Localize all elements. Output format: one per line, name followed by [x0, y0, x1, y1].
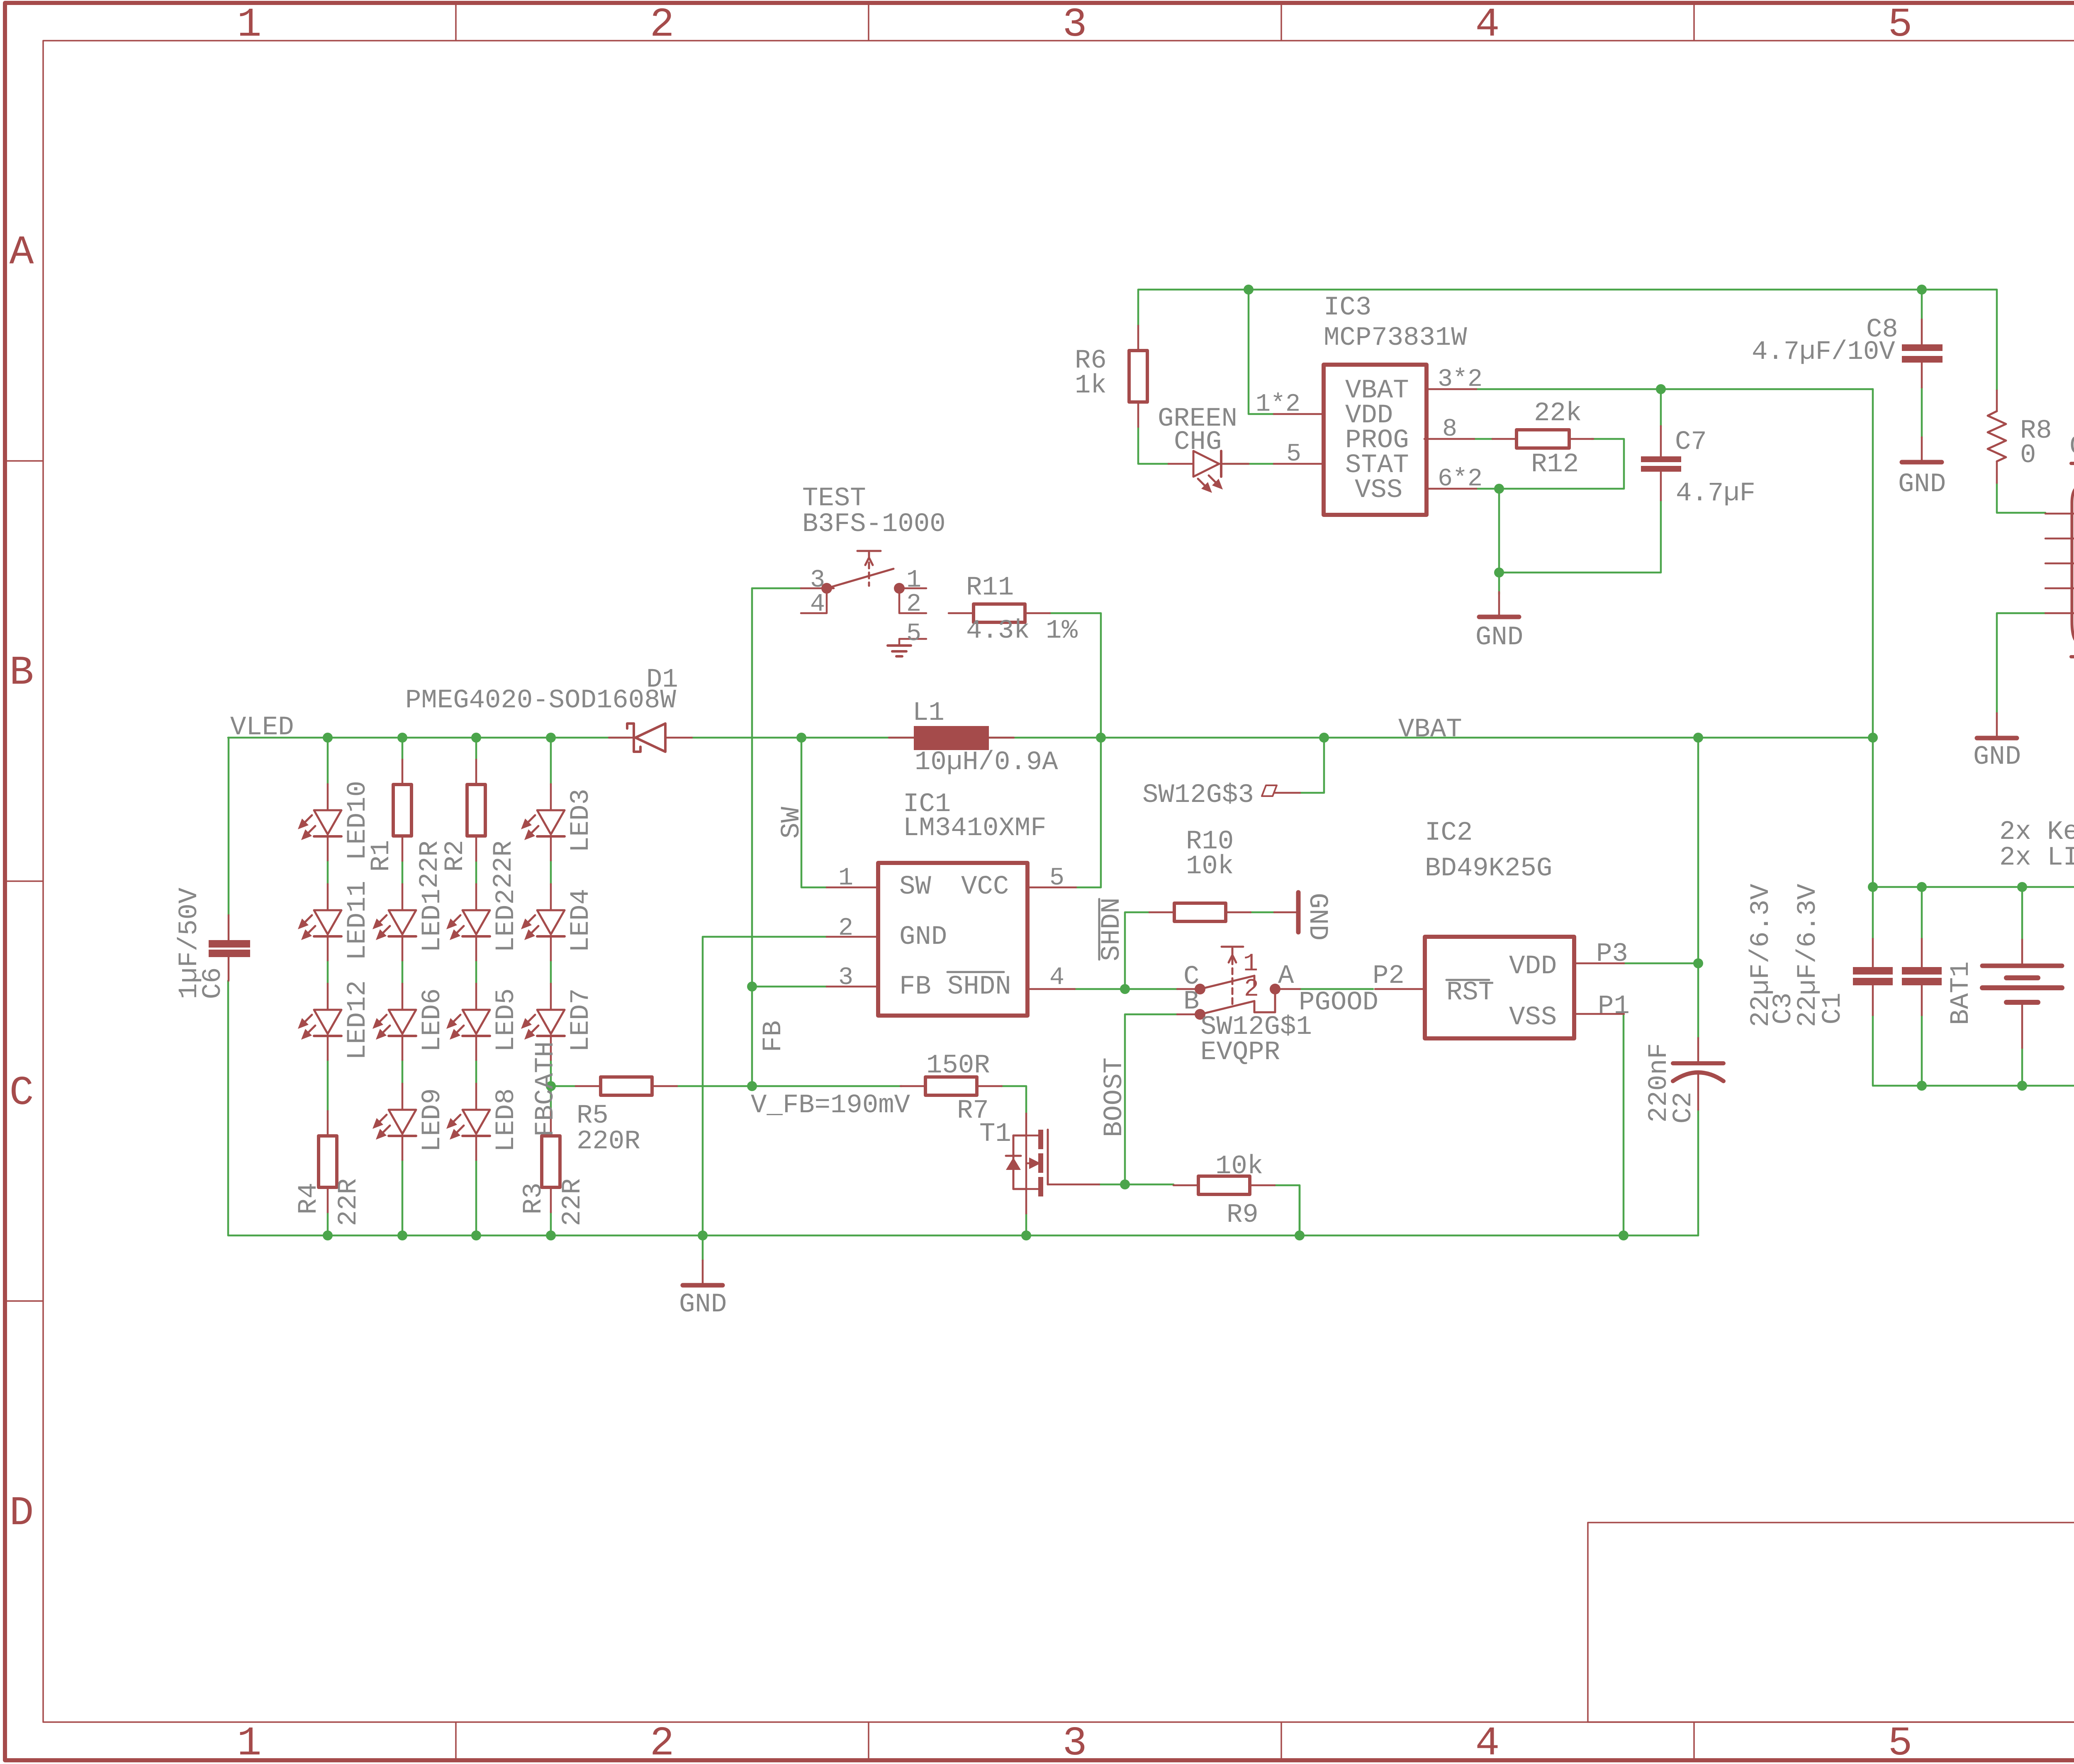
- LED LED1: [402, 884, 404, 910]
- frame row ticks left: [5, 460, 43, 462]
- frame column ticks top: [455, 5, 457, 41]
- capacitor C7: [1660, 426, 1662, 456]
- junction dots on VLED rail: [323, 733, 333, 743]
- svg-text:R1: R1: [367, 840, 397, 872]
- svg-text:4.3k 1%: 4.3k 1%: [966, 616, 1078, 646]
- IC1 pin 5 VCC: [1027, 887, 1076, 889]
- svg-text:A: A: [10, 230, 34, 276]
- svg-text:FB: FB: [899, 972, 931, 1002]
- junction dots on GND bottom rail: [323, 1230, 333, 1240]
- IC1 pin 4 SHDN: [1027, 988, 1075, 990]
- wire VBAT to battery rail: [1872, 389, 1874, 939]
- svg-text:5: 5: [906, 620, 921, 648]
- capacitor C6: [228, 915, 230, 940]
- svg-text:SW: SW: [777, 806, 807, 838]
- IC3 pin VBAT 3*2: [1426, 388, 1476, 390]
- svg-text:P1: P1: [1598, 992, 1630, 1021]
- op-amp IC2 BD49K25G box: [1425, 937, 1574, 1038]
- wire SW net from VLED rail to IC1 pin 1: [801, 738, 827, 887]
- svg-text:B3FS-1000: B3FS-1000: [802, 509, 946, 539]
- wire C8 to GND: [1921, 387, 1923, 437]
- wire VLED rail: [228, 737, 630, 739]
- svg-text:R4: R4: [294, 1183, 324, 1215]
- wire FB net vertical: [751, 588, 753, 1086]
- svg-text:4: 4: [1049, 964, 1064, 992]
- svg-text:8: 8: [1442, 415, 1457, 443]
- resistor R7: [901, 1085, 925, 1087]
- resistor R4: [327, 1111, 329, 1136]
- svg-text:1*2: 1*2: [1256, 390, 1300, 419]
- svg-text:1k: 1k: [1075, 371, 1107, 401]
- svg-text:L1: L1: [913, 698, 944, 728]
- svg-text:22R: 22R: [558, 1178, 588, 1226]
- svg-text:C6: C6: [198, 967, 228, 999]
- wire IC3 VBAT 3*2 branch: [1476, 388, 1873, 390]
- wire Molex pin 5 to GND: [1997, 613, 2045, 713]
- frame column ticks bottom: [455, 1722, 457, 1760]
- resistor R6: [1137, 326, 1139, 351]
- junction dot P3 branch: [1693, 958, 1703, 968]
- svg-text:FBCATH: FBCATH: [531, 1041, 561, 1137]
- svg-text:LED5: LED5: [492, 988, 521, 1052]
- ground IC3: [1498, 592, 1500, 617]
- LED LED9: [402, 1084, 404, 1110]
- op-amp IC3 MCP73831W box: [1324, 365, 1426, 515]
- svg-text:220R: 220R: [577, 1127, 640, 1157]
- svg-text:D: D: [10, 1491, 34, 1537]
- svg-text:A: A: [1278, 961, 1294, 991]
- wire VBAT main rail: [692, 737, 1873, 739]
- svg-text:LED3: LED3: [566, 789, 596, 853]
- junction dots battery top rail: [1868, 882, 1878, 892]
- wire FB net pin3 branch: [752, 986, 827, 988]
- battery BAT1: [2021, 940, 2023, 966]
- svg-text:CHG: CHG: [1174, 427, 1222, 457]
- svg-text:IC2: IC2: [1425, 818, 1473, 848]
- svg-text:VBAT: VBAT: [1398, 715, 1462, 745]
- capacitor C8: [1921, 319, 1923, 344]
- wire C7 branches: [1499, 389, 1661, 573]
- svg-text:R3: R3: [519, 1183, 549, 1215]
- wire LED column interconnect segments: [328, 860, 551, 1084]
- svg-text:LED6: LED6: [418, 988, 448, 1052]
- svg-text:10k: 10k: [1186, 852, 1234, 882]
- svg-text:SHDN: SHDN: [947, 972, 1011, 1002]
- svg-text:2x LIR 2430: 2x LIR 2430: [1999, 843, 2074, 873]
- wire GND bottom rail: [228, 981, 1698, 1235]
- IC2 pin P3: [1574, 962, 1624, 965]
- svg-text:GND: GND: [1302, 893, 1332, 940]
- ground mid rail: [702, 1260, 704, 1285]
- svg-text:FB: FB: [759, 1021, 789, 1053]
- junction dots on IC3 top bus: [1244, 285, 1254, 295]
- svg-text:R12: R12: [1531, 450, 1579, 480]
- svg-text:22k: 22k: [1534, 399, 1582, 429]
- LED LED10: [327, 784, 329, 810]
- capacitor C2: [1697, 1038, 1699, 1062]
- svg-text:GND: GND: [899, 922, 947, 952]
- svg-text:1: 1: [237, 1721, 262, 1764]
- LED LED5: [475, 984, 477, 1010]
- svg-text:SW12G$3: SW12G$3: [1142, 780, 1254, 810]
- svg-text:150R: 150R: [926, 1051, 990, 1081]
- svg-text:PGOOD: PGOOD: [1299, 988, 1378, 1018]
- svg-text:SHDN: SHDN: [1097, 897, 1127, 961]
- svg-text:V_FB=190mV: V_FB=190mV: [751, 1091, 910, 1121]
- ground C8: [1921, 437, 1923, 462]
- resistor R1: [402, 760, 404, 785]
- svg-text:BD49K25G: BD49K25G: [1425, 854, 1552, 884]
- svg-text:LED8: LED8: [492, 1088, 521, 1152]
- wire R8 to Molex pin 1: [1997, 483, 2045, 513]
- svg-text:22R: 22R: [489, 841, 519, 888]
- LED LED6: [402, 984, 404, 1010]
- connector pin SW12G$3: [1275, 792, 1300, 794]
- svg-text:BAT2: BAT2: [2071, 961, 2074, 1025]
- svg-text:2: 2: [838, 914, 853, 943]
- svg-text:C2: C2: [1669, 1092, 1699, 1124]
- svg-text:VSS: VSS: [1509, 1003, 1557, 1033]
- svg-text:MCP73831W: MCP73831W: [1324, 323, 1467, 353]
- IC2 pin P2: [1375, 988, 1425, 990]
- svg-text:2: 2: [650, 1721, 674, 1764]
- junction dot IC3 VSS row: [1494, 484, 1504, 494]
- svg-text:LED2: LED2: [492, 889, 521, 953]
- svg-text:T1: T1: [979, 1119, 1011, 1149]
- resistor R12: [1424, 438, 1474, 440]
- wire PROG R12 loop: [1474, 439, 1624, 489]
- junction dot C7 top branch: [1656, 384, 1666, 394]
- IC1 pin 3 FB: [827, 986, 878, 988]
- wire FB net horizontal row: [551, 1086, 1026, 1113]
- wire R9 to GND rail: [1275, 1185, 1300, 1235]
- svg-text:GND: GND: [1973, 742, 2021, 772]
- junction dot VCC vertical on rail: [1096, 733, 1106, 743]
- resistor R10: [1149, 911, 1174, 914]
- svg-text:VDD: VDD: [1509, 952, 1557, 982]
- svg-text:5: 5: [1049, 864, 1064, 892]
- capacitor C3: [1872, 939, 1874, 967]
- svg-text:4: 4: [810, 590, 825, 619]
- svg-text:P3: P3: [1596, 939, 1628, 969]
- svg-text:SW: SW: [899, 872, 931, 902]
- svg-text:P2: P2: [1373, 961, 1405, 991]
- svg-text:2: 2: [650, 2, 674, 48]
- junction dot IC3 GND row: [1494, 568, 1504, 577]
- svg-text:GND: GND: [679, 1290, 727, 1320]
- junction dot SW net on rail: [796, 733, 806, 743]
- svg-text:3*2: 3*2: [1438, 365, 1482, 394]
- IC1 pin 2 GND: [827, 936, 878, 938]
- svg-text:LED4: LED4: [566, 889, 596, 953]
- wire LED column bottoms to GND rail: [328, 1060, 551, 1235]
- resistor R5: [576, 1085, 601, 1087]
- IC1 SHDN overline: [947, 971, 1004, 973]
- junction dot P3 vertical on rail: [1693, 733, 1703, 743]
- svg-text:10µH/0.9A: 10µH/0.9A: [915, 748, 1058, 777]
- svg-text:VCC: VCC: [961, 872, 1009, 902]
- svg-text:1: 1: [838, 864, 853, 892]
- svg-text:C1: C1: [1818, 993, 1848, 1025]
- resistor R3: [550, 1111, 552, 1136]
- IC2 pin P1: [1574, 1013, 1624, 1015]
- wire P3 to VBAT rail: [1624, 738, 1698, 1038]
- inductor L1: [889, 737, 914, 739]
- svg-text:22R: 22R: [334, 1178, 364, 1226]
- junction dot FB row: [747, 1081, 757, 1091]
- LED GREEN CHG status: [1168, 463, 1193, 465]
- IC1 pin 1 SW: [827, 887, 878, 889]
- svg-text:VLED: VLED: [230, 713, 294, 743]
- svg-text:VSS: VSS: [1355, 475, 1402, 505]
- svg-text:0: 0: [2020, 441, 2036, 470]
- svg-text:LED7: LED7: [566, 988, 596, 1052]
- wire IC3 top bus: [1138, 290, 1997, 414]
- resistor R8: [1996, 390, 1998, 411]
- LED LED3: [550, 784, 552, 810]
- svg-text:GND: GND: [1898, 470, 1946, 499]
- IC3 pin VSS 6*2: [1426, 488, 1476, 490]
- switch SW12G$1 EVQPR: [1177, 988, 1200, 990]
- wire GND stub drops from rail: [703, 1110, 1698, 1260]
- capacitor C1: [1921, 939, 1923, 967]
- wire P1 to GND rail: [1623, 1014, 1625, 1235]
- svg-text:IC3: IC3: [1324, 293, 1371, 323]
- LED LED11: [327, 884, 329, 910]
- svg-text:1: 1: [237, 2, 262, 48]
- junction dot BOOST at gate: [1120, 1179, 1130, 1189]
- LED LED7: [550, 984, 552, 1010]
- resistor R11: [949, 612, 974, 614]
- wire SW12G$3 stub to rail: [1300, 738, 1324, 793]
- svg-text:5: 5: [1286, 440, 1301, 468]
- SHDN net overline: [1098, 899, 1100, 960]
- resistor R2: [475, 760, 477, 785]
- LED LED12: [327, 984, 329, 1010]
- wire VLED column drops: [229, 738, 551, 915]
- svg-text:CHRG: CHRG: [2069, 432, 2074, 462]
- svg-text:LED1: LED1: [418, 889, 448, 953]
- svg-text:5: 5: [1888, 2, 1913, 48]
- svg-text:3: 3: [1063, 2, 1087, 48]
- svg-text:PMEG4020-SOD1608W: PMEG4020-SOD1608W: [405, 686, 677, 716]
- svg-text:R11: R11: [966, 573, 1014, 603]
- svg-text:GND: GND: [1475, 623, 1523, 653]
- resistor R9: [1173, 1184, 1198, 1187]
- svg-text:6*2: 6*2: [1438, 465, 1482, 493]
- junction dots on battery bottom rail: [1917, 1081, 1927, 1091]
- ground R10 rotated: [1274, 911, 1297, 914]
- svg-text:B: B: [10, 650, 34, 696]
- svg-text:LM3410XMF: LM3410XMF: [903, 814, 1047, 843]
- wire battery bottom rail: [1873, 1015, 2074, 1111]
- Molex pin lines 1-5: [2045, 513, 2074, 515]
- svg-text:LED12: LED12: [343, 980, 373, 1060]
- svg-text:4.7µF: 4.7µF: [1676, 479, 1755, 509]
- wire IC3 VSS GND drop: [1498, 489, 1500, 594]
- svg-text:C7: C7: [1675, 427, 1707, 457]
- wire battery top rail: [1873, 887, 2074, 940]
- title block outline: [1588, 1523, 2074, 1722]
- wire BOOST net: [1099, 1014, 1177, 1184]
- svg-text:2: 2: [1244, 975, 1259, 1004]
- wire SHDN net: [1075, 912, 1274, 989]
- svg-text:5: 5: [1888, 1721, 1913, 1764]
- LED LED8: [475, 1084, 477, 1110]
- svg-text:BAT1: BAT1: [1946, 961, 1976, 1025]
- svg-text:4: 4: [1475, 2, 1500, 48]
- svg-text:4: 4: [1475, 1721, 1500, 1764]
- wire R6 to status LED to IC3 STAT: [1138, 427, 1274, 464]
- svg-text:BOOST: BOOST: [1100, 1057, 1130, 1137]
- svg-text:LED11: LED11: [343, 881, 373, 960]
- wire TEST pin3 to FB vertical: [752, 587, 801, 590]
- svg-text:4.7µF/10V: 4.7µF/10V: [1752, 337, 1895, 367]
- IC3 pin VDD 1*2: [1274, 413, 1324, 415]
- wire PGOOD P2 net: [1300, 988, 1373, 990]
- svg-text:R2: R2: [441, 840, 470, 872]
- LED LED2: [475, 884, 477, 910]
- LED LED4: [550, 884, 552, 910]
- svg-text:B: B: [1183, 987, 1199, 1017]
- svg-text:3: 3: [838, 964, 853, 992]
- connector CHRG MOLEX-47346-0001: [2071, 463, 2074, 657]
- junction dot FB pin3 branch: [747, 982, 757, 992]
- transistor T1 MOSFET: [1025, 1113, 1027, 1213]
- junction dot SHDN at pin4: [1120, 984, 1130, 994]
- svg-text:C: C: [10, 1070, 34, 1116]
- wire VCC net R11 to rail to IC1 pin 5: [1050, 613, 1101, 887]
- svg-text:LED9: LED9: [418, 1088, 448, 1152]
- switch TEST B3FS-1000: [801, 587, 834, 590]
- svg-text:EVQPR: EVQPR: [1200, 1038, 1280, 1067]
- svg-text:2: 2: [906, 590, 921, 619]
- ground Molex pin5: [1996, 713, 1998, 738]
- svg-text:RST: RST: [1446, 978, 1494, 1008]
- junction dot battery vertical on rail: [1868, 733, 1878, 743]
- IC3 pin STAT 5: [1274, 463, 1324, 465]
- wire IC1 GND pin2 to rail: [703, 937, 827, 1235]
- diode D1: [609, 737, 634, 739]
- svg-text:1: 1: [1243, 950, 1258, 978]
- svg-text:R9: R9: [1227, 1200, 1259, 1230]
- junction dot FBCATH: [546, 1081, 556, 1091]
- junction dot SW12G$3 on rail: [1319, 733, 1329, 743]
- op-amp IC1 LM3410XMF box: [878, 863, 1027, 1016]
- svg-text:3: 3: [1063, 1721, 1087, 1764]
- svg-text:10k: 10k: [1215, 1152, 1263, 1182]
